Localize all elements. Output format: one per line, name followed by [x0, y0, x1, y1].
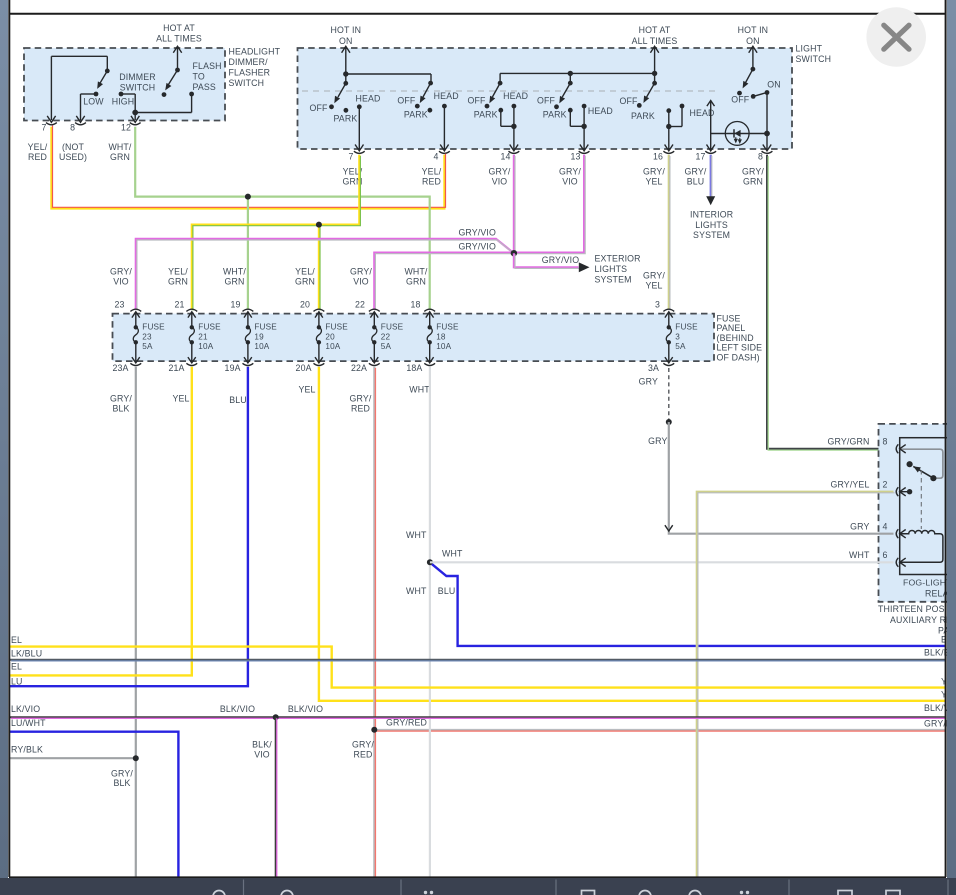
svg-text:10A: 10A — [198, 342, 213, 351]
svg-text:13: 13 — [570, 152, 580, 162]
bus 1 wire — [346, 73, 431, 75]
fuse 19 pin 19A — [247, 342, 249, 363]
svg-text:GRY/: GRY/ — [489, 167, 511, 177]
switch 3 OFF contact — [485, 104, 490, 109]
svg-text:VIO: VIO — [492, 176, 508, 186]
pin 17 internal riser with up arrow — [710, 101, 712, 151]
svg-text:GRN: GRN — [406, 276, 426, 286]
switch 2 OFF contact — [415, 104, 420, 109]
relay pin 4 — [896, 529, 898, 538]
arrow to interior lights system — [706, 196, 715, 205]
svg-text:16: 16 — [653, 152, 663, 162]
switch 3 HEAD contact — [512, 104, 517, 109]
svg-text:OFF: OFF — [731, 95, 750, 105]
wire GRY/YEL: light switch pin 16 to fuse 3 — [668, 155, 670, 309]
svg-text:GRY/: GRY/ — [110, 267, 132, 277]
svg-text:GRN: GRN — [295, 276, 315, 286]
wire: HIGH contact to pin 12 node — [121, 93, 135, 95]
node: flasher pivot — [175, 68, 180, 73]
wire BLK/VIO: full width — [10, 716, 945, 718]
node BLK/VIO junction — [273, 714, 279, 720]
svg-text:ON: ON — [339, 36, 353, 46]
relay movable contact — [907, 461, 913, 467]
fuse panel box — [113, 314, 715, 362]
svg-text:RED: RED — [28, 152, 47, 162]
svg-text:GRY/VIO: GRY/VIO — [542, 255, 580, 265]
svg-text:HOT AT: HOT AT — [639, 25, 671, 35]
dimmer switch common wire from pin 7 — [50, 56, 52, 120]
switch 4 lever — [562, 83, 570, 97]
pin 16 light switch — [665, 145, 673, 151]
svg-text:ON: ON — [767, 80, 781, 90]
svg-text:18A: 18A — [406, 363, 422, 373]
svg-text:23: 23 — [142, 332, 152, 341]
node bus 1 / switch 1 pivot — [343, 71, 348, 76]
svg-text:5A: 5A — [381, 342, 392, 351]
switch 1 PARK contact — [344, 108, 349, 113]
svg-text:GRN: GRN — [743, 176, 763, 186]
svg-text:(BEHIND: (BEHIND — [717, 333, 754, 343]
svg-text:YEL: YEL — [298, 384, 315, 394]
wire: LOW contact to pin 8 — [81, 93, 97, 95]
svg-text:5A: 5A — [675, 342, 686, 351]
wire BLU: junction to right edge — [432, 564, 945, 646]
switch 2 HEAD contact — [442, 104, 447, 109]
svg-text:EL: EL — [11, 635, 22, 645]
svg-text:HEADLIGHT: HEADLIGHT — [229, 47, 281, 57]
wire BLK/VIO vertical down — [275, 717, 277, 877]
svg-text:2: 2 — [882, 480, 887, 490]
fuse 3 element — [667, 325, 671, 329]
svg-text:10A: 10A — [254, 342, 269, 351]
wire YEL/GRN branch to fuse 20 — [318, 225, 320, 310]
svg-text:BLK: BLK — [112, 403, 129, 413]
svg-text:FLASHER: FLASHER — [229, 68, 271, 78]
fuse 23 pin 23A — [135, 342, 137, 363]
svg-text:BLK/VIO: BLK/VIO — [220, 704, 255, 714]
svg-text:19: 19 — [254, 332, 264, 341]
svg-text:SWITCH: SWITCH — [229, 78, 265, 88]
svg-text:RED: RED — [351, 403, 370, 413]
svg-text:LEFT SIDE: LEFT SIDE — [717, 343, 763, 353]
svg-text:BLU: BLU — [687, 176, 705, 186]
fuse 3 pin 3 — [663, 309, 674, 311]
svg-text:8: 8 — [882, 437, 887, 447]
contact PASS — [189, 92, 194, 97]
fuse 21 pin 21A — [191, 342, 193, 363]
svg-text:23A: 23A — [112, 363, 128, 373]
svg-text:GRY/: GRY/ — [559, 167, 581, 177]
pin 8 dimmer switch — [76, 116, 84, 122]
pin 4 light switch — [440, 145, 448, 151]
svg-text:YEL: YEL — [645, 176, 662, 186]
switch 4 pivot — [568, 81, 573, 86]
svg-text:DIMMER: DIMMER — [119, 72, 156, 82]
svg-text:18: 18 — [436, 332, 446, 341]
wire BLU: fuse 19A to left edge — [10, 367, 248, 686]
node GRY junction — [666, 419, 672, 425]
switch 3 pivot — [498, 81, 503, 86]
svg-text:PARK: PARK — [404, 109, 428, 119]
switch 1 lever (OFF/PARK/HEAD) — [338, 83, 346, 97]
fuse 19 pin 19 — [243, 309, 254, 311]
node: dimmer pivot — [105, 69, 110, 74]
svg-text:GRY/YEL: GRY/YEL — [830, 480, 869, 490]
svg-text:4: 4 — [433, 152, 438, 162]
fuse 19 element — [246, 325, 250, 329]
wire: pin 17 riser through lamp to pin 8 riser — [711, 133, 767, 135]
switch 5 pivot — [652, 81, 657, 86]
frame: black border lines — [8, 0, 10, 877]
relay pin 2 stub contact — [900, 491, 908, 493]
svg-text:VIO: VIO — [353, 276, 369, 286]
background strips left and right — [0, 0, 8, 878]
svg-text:HEAD: HEAD — [588, 106, 613, 116]
wire GRY/GRN: light switch pin 8 to relay pin 8 — [767, 155, 894, 449]
svg-text:21: 21 — [174, 299, 184, 309]
fuse 22 pin 22 — [369, 309, 380, 311]
wire GRY/RED horizontal to right edge — [374, 729, 945, 731]
wire: switch 5 PARK+HEAD to pin 16 — [681, 106, 683, 127]
fuse 23 pin 23 — [130, 309, 141, 311]
svg-text:YEL/: YEL/ — [422, 167, 442, 177]
wire YEL/RED: dimmer pin 7 to light switch pin 4 — [51, 127, 444, 209]
node bus 2 / switch 4 — [568, 71, 573, 76]
svg-text:FUSE: FUSE — [254, 323, 277, 332]
svg-text:8: 8 — [758, 152, 763, 162]
svg-text:SWITCH: SWITCH — [120, 83, 156, 93]
svg-text:BLK/VIO: BLK/VIO — [288, 704, 323, 714]
relay pin 6 — [896, 558, 898, 567]
wire GRY: to relay pin 4 — [669, 422, 894, 534]
svg-text:HOT AT: HOT AT — [163, 23, 195, 33]
node switch 4 head junction — [581, 124, 586, 129]
switch 1 OFF contact — [329, 104, 334, 109]
svg-text:PASS: PASS — [193, 82, 216, 92]
svg-text:5A: 5A — [142, 342, 153, 351]
svg-text:HIGH: HIGH — [112, 96, 135, 106]
svg-text:GRY/: GRY/ — [643, 167, 665, 177]
svg-text:22: 22 — [381, 332, 391, 341]
wire: junction to pin 12 — [134, 94, 136, 120]
mechanical link dashed line — [302, 90, 720, 92]
contact LOW — [94, 92, 99, 97]
svg-text:THIRTEEN POSITION: THIRTEEN POSITION — [878, 604, 956, 614]
svg-text:HOT IN: HOT IN — [331, 25, 362, 35]
svg-text:RED: RED — [353, 749, 372, 759]
fuse 3 pin 3A — [668, 342, 670, 363]
switch 1 HEAD contact — [357, 104, 362, 109]
pin 13 light switch — [580, 145, 588, 151]
wire GRY/VIO: light switch pin 14 riser — [513, 155, 515, 253]
svg-text:YEL/: YEL/ — [295, 267, 315, 277]
svg-text:EXTERIOR: EXTERIOR — [595, 254, 641, 264]
close button — [866, 7, 926, 67]
switch 5 OFF contact — [637, 103, 642, 108]
svg-text:HEAD: HEAD — [355, 93, 380, 103]
pin 14 light switch — [510, 145, 518, 151]
svg-text:LIGHTS: LIGHTS — [695, 220, 728, 230]
svg-text:LIGHTS: LIGHTS — [595, 264, 628, 274]
pin 7 dimmer switch — [47, 116, 55, 122]
arrow on GRY wire — [665, 525, 673, 531]
svg-text:BLK/: BLK/ — [252, 740, 272, 750]
svg-text:WHT: WHT — [406, 530, 427, 540]
pin 17 light switch — [707, 145, 715, 151]
relay pin 2 — [896, 487, 898, 496]
fuse 20 pin 20A — [318, 342, 320, 363]
svg-text:GRY/: GRY/ — [350, 394, 372, 404]
svg-text:PANEL: PANEL — [717, 323, 746, 333]
switch 2 pivot — [428, 81, 433, 86]
svg-text:ON: ON — [746, 36, 760, 46]
svg-text:LIGHT: LIGHT — [796, 44, 823, 54]
node switch 3 head junction — [511, 124, 516, 129]
contact HIGH — [119, 92, 124, 97]
arrow to exterior lights system — [579, 262, 590, 272]
node bus 2 feed — [652, 71, 657, 76]
svg-text:HEAD: HEAD — [434, 91, 459, 101]
svg-text:YEL: YEL — [645, 280, 662, 290]
wire GRY/RED: fuse 22A down — [373, 367, 375, 877]
fuse 22 pin 22A — [373, 342, 375, 363]
svg-text:LK/BLU: LK/BLU — [11, 649, 42, 659]
svg-text:HEAD: HEAD — [503, 91, 528, 101]
power feed: hot at all times into flasher — [177, 46, 179, 70]
fuse 22 element — [372, 325, 376, 329]
switch 5 lever — [647, 83, 655, 97]
wire BLU/WHT: left edge down — [10, 732, 178, 877]
svg-text:EL: EL — [11, 662, 22, 672]
svg-text:OFF: OFF — [309, 103, 328, 113]
svg-text:20: 20 — [325, 332, 335, 341]
lamp cathode bar and triangle — [733, 129, 735, 137]
svg-text:3: 3 — [675, 332, 680, 341]
dimmer lever — [100, 71, 107, 83]
svg-text:GRY/: GRY/ — [352, 740, 374, 750]
svg-text:GRN: GRN — [110, 152, 130, 162]
switch 6 lever — [746, 69, 753, 82]
fog light relay inner box — [900, 438, 953, 575]
svg-text:VIO: VIO — [113, 276, 129, 286]
wire: pass contact to pin 12 node — [191, 94, 193, 113]
svg-text:22: 22 — [355, 299, 365, 309]
svg-text:WHT/: WHT/ — [223, 267, 246, 277]
svg-text:4: 4 — [882, 522, 887, 532]
wire YEL: fuse 20A to right edge — [319, 367, 945, 701]
svg-text:19: 19 — [230, 299, 240, 309]
wire: switch 3 PARK+HEAD to pin 14 — [500, 110, 502, 126]
svg-text:SYSTEM: SYSTEM — [693, 230, 730, 240]
switch 4 HEAD contact — [582, 104, 587, 109]
pin 12 dimmer switch — [131, 116, 139, 122]
svg-text:TO: TO — [193, 72, 205, 82]
fog light relay outer dashed box — [879, 424, 953, 602]
svg-text:FLASH: FLASH — [193, 61, 222, 71]
svg-text:PARK: PARK — [631, 111, 655, 121]
svg-text:20: 20 — [300, 299, 310, 309]
svg-text:GRY/VIO: GRY/VIO — [458, 228, 496, 238]
relay actuation dashed line — [920, 470, 922, 529]
svg-text:(NOT: (NOT — [62, 142, 85, 152]
wire GRY/BLU pin 17 stub — [710, 155, 712, 197]
wire GRY/BLK: fuse 23A down — [135, 367, 137, 877]
svg-text:GRN: GRN — [168, 276, 188, 286]
svg-text:17: 17 — [695, 152, 705, 162]
wire WHT/GRN: dimmer pin 12 to fuses 19 and 18 — [135, 127, 430, 310]
svg-text:OFF: OFF — [619, 96, 638, 106]
node GRY/BLK junction — [133, 755, 139, 761]
svg-text:WHT/: WHT/ — [108, 142, 131, 152]
svg-text:WHT: WHT — [849, 550, 870, 560]
fuse 23 element — [134, 325, 138, 329]
svg-text:RY/BLK: RY/BLK — [11, 745, 43, 755]
svg-text:HOT IN: HOT IN — [738, 25, 769, 35]
svg-text:GRY/VIO: GRY/VIO — [458, 241, 496, 251]
svg-text:7: 7 — [41, 123, 46, 133]
svg-text:20A: 20A — [296, 363, 312, 373]
wire WHT to relay pin 6 — [430, 561, 894, 563]
svg-text:FUSE: FUSE — [198, 323, 221, 332]
svg-text:8: 8 — [70, 123, 75, 133]
bus 2 wire — [500, 72, 654, 74]
svg-text:GRY/: GRY/ — [350, 267, 372, 277]
switch 2 lever — [423, 83, 431, 97]
wire BLK/BLU: full width — [10, 659, 945, 661]
svg-text:6: 6 — [882, 550, 887, 560]
svg-text:GRY: GRY — [648, 436, 667, 446]
svg-text:RED: RED — [422, 176, 441, 186]
wire GRY dashed: fuse 3A — [668, 368, 670, 420]
node switch 5 junction — [666, 124, 671, 129]
svg-text:OF DASH): OF DASH) — [717, 352, 760, 362]
svg-text:FUSE: FUSE — [325, 323, 348, 332]
node YEL/GRN junction — [316, 222, 322, 228]
svg-text:7: 7 — [348, 152, 353, 162]
svg-text:INTERIOR: INTERIOR — [690, 210, 733, 220]
wire: switch 2 HEAD to pin 4 — [443, 106, 445, 150]
node GRY/RED junction — [371, 727, 377, 733]
svg-text:PARK: PARK — [333, 114, 357, 124]
svg-text:GRY: GRY — [850, 522, 869, 532]
relay coil and return to pin 6 — [900, 530, 943, 562]
svg-text:23: 23 — [114, 299, 124, 309]
svg-text:LK/VIO: LK/VIO — [11, 704, 40, 714]
svg-text:3A: 3A — [648, 363, 659, 373]
node: pin 12 junction — [132, 110, 138, 116]
svg-text:12: 12 — [121, 123, 131, 133]
svg-text:USED): USED) — [59, 152, 87, 162]
node GRY/VIO junction — [511, 250, 517, 256]
relay contact lever — [913, 466, 933, 478]
bottom toolbar — [0, 878, 956, 895]
svg-text:VIO: VIO — [254, 749, 270, 759]
node WHT/GRN junction — [245, 194, 251, 200]
svg-text:YEL/: YEL/ — [168, 267, 188, 277]
fuse 20 element — [317, 325, 321, 329]
relay pin 8 — [896, 444, 898, 453]
svg-text:FUSE: FUSE — [436, 323, 459, 332]
relay fixed contact — [930, 475, 936, 481]
wire WHT/GRN branch to fuse 19 — [247, 197, 249, 310]
switch 5 HEAD contact — [680, 104, 685, 109]
wire GRY/BLK horizontal from left edge — [10, 757, 136, 759]
switch 4 PARK contact — [568, 108, 573, 113]
svg-text:BLU: BLU — [438, 586, 456, 596]
svg-text:OFF: OFF — [467, 96, 486, 106]
svg-text:GRY/: GRY/ — [110, 394, 132, 404]
svg-text:VIO: VIO — [562, 176, 578, 186]
svg-text:YEL/: YEL/ — [28, 142, 48, 152]
fuse 18 element — [428, 325, 432, 329]
svg-text:SYSTEM: SYSTEM — [595, 275, 632, 285]
light switch box — [298, 48, 793, 149]
wire GRY/VIO to exterior lights system — [514, 253, 579, 267]
switch 5 PARK contact — [666, 108, 671, 113]
svg-text:21A: 21A — [168, 363, 184, 373]
svg-text:GRY/: GRY/ — [742, 167, 764, 177]
illumination lamp circle — [725, 121, 749, 145]
wire WHT: fuse 18A down — [429, 367, 431, 877]
switch 6 pivot (on/off switch) — [751, 67, 756, 72]
flash-to-pass lever — [168, 70, 177, 85]
svg-text:14: 14 — [500, 152, 510, 162]
svg-text:FUSE: FUSE — [675, 323, 698, 332]
svg-text:WHT: WHT — [406, 586, 427, 596]
svg-text:21: 21 — [198, 332, 208, 341]
svg-text:3: 3 — [655, 299, 660, 309]
fuse 21 pin 21 — [186, 309, 197, 311]
svg-text:PARK: PARK — [474, 109, 498, 119]
svg-text:LU: LU — [11, 676, 23, 686]
switch 6 OFF contact — [737, 91, 742, 96]
svg-text:10A: 10A — [325, 342, 340, 351]
node lamp junction on pin 8 wire — [764, 131, 770, 137]
wire YEL: fuse 21A to left edge — [10, 367, 192, 676]
switch 3 PARK contact — [498, 108, 503, 113]
svg-text:DIMMER/: DIMMER/ — [229, 57, 269, 67]
svg-text:WHT: WHT — [409, 384, 430, 394]
svg-text:18: 18 — [410, 299, 420, 309]
pin 7 light switch — [355, 145, 363, 151]
switch 3 lever — [492, 83, 500, 97]
svg-text:LOW: LOW — [83, 96, 104, 106]
svg-text:FUSE: FUSE — [381, 323, 404, 332]
svg-text:PARK: PARK — [543, 109, 567, 119]
svg-text:GRY/: GRY/ — [685, 167, 707, 177]
switch 2 PARK contact — [428, 108, 433, 113]
svg-text:10A: 10A — [436, 342, 451, 351]
lamp emission arrows — [735, 137, 737, 142]
svg-text:WHT: WHT — [442, 549, 463, 559]
wire: switch 4 PARK+HEAD to pin 13 — [569, 110, 571, 126]
wire GRY/YEL: relay pin 2 down to bottom — [697, 492, 894, 877]
switch 6 moving contact to ON — [753, 93, 767, 97]
svg-text:SWITCH: SWITCH — [796, 54, 832, 64]
svg-text:FUSE: FUSE — [142, 323, 165, 332]
svg-text:LU/WHT: LU/WHT — [11, 718, 46, 728]
fuse 21 element — [190, 325, 194, 329]
wire GRY/VIO line B: fuse 22 riser to junction — [374, 253, 514, 310]
fuse 18 pin 18 — [424, 309, 435, 311]
fuse 18 pin 18A — [429, 342, 431, 363]
svg-text:22A: 22A — [351, 363, 367, 373]
pin 8 light switch — [763, 145, 771, 151]
flash rest contact — [162, 92, 167, 97]
svg-text:BLK: BLK — [113, 778, 130, 788]
svg-text:ALL TIMES: ALL TIMES — [156, 34, 202, 44]
svg-text:19A: 19A — [225, 363, 241, 373]
